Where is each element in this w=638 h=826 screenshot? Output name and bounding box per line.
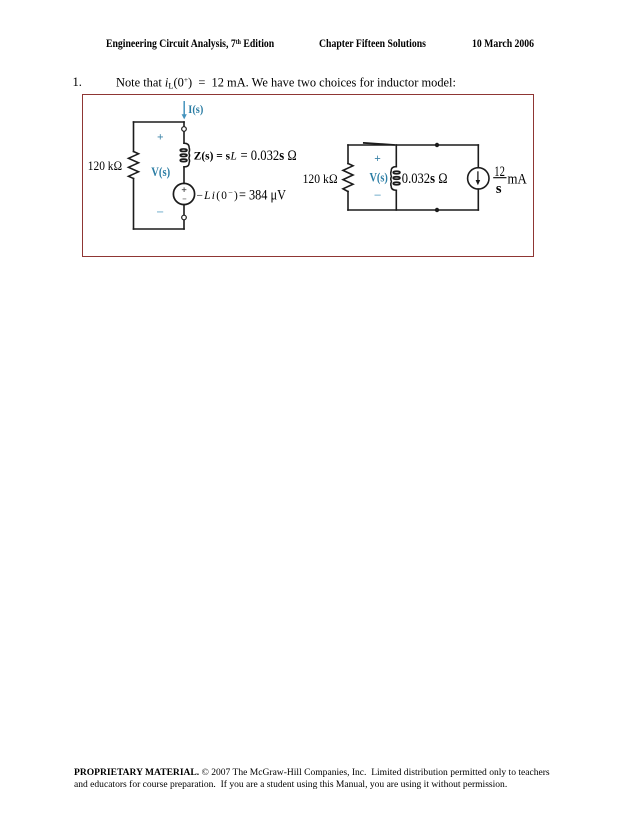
inductor L2 hooks and spine (right circuit) — [391, 167, 397, 191]
right circuit middle branch upper wire — [395, 145, 397, 167]
junction dot bottom — [435, 208, 439, 212]
wire: lower terminal to bottom wire — [183, 220, 185, 229]
svg-text:s: s — [496, 181, 502, 197]
right circuit outer rectangle top — [348, 144, 478, 146]
plus sign inside voltage source — [182, 187, 187, 199]
current source I1 circle — [468, 168, 489, 189]
right circuit left vertical lower — [347, 192, 349, 211]
svg-text:+: + — [157, 131, 164, 143]
resistor R left circuit 120k zigzag — [129, 152, 139, 179]
inductor L2 turns (ellipses) — [393, 171, 400, 185]
svg-text:−Li(0−): −Li(0−) — [197, 188, 240, 202]
right circuit left vertical upper — [347, 145, 349, 164]
inductor L1 hooks and spine (left circuit) — [184, 143, 190, 167]
label minus left circuit — [157, 211, 163, 213]
header: chapter — [319, 37, 426, 50]
resistor R right circuit 120k zigzag — [343, 164, 353, 192]
svg-text:120 kΩ: 120 kΩ — [303, 171, 338, 186]
svg-text:Z(s) = s: Z(s) = s — [194, 150, 231, 162]
wire: left circuit left vertical lower — [133, 179, 135, 230]
wire: source to lower terminal — [183, 205, 185, 216]
wire: inductor to source — [183, 167, 185, 183]
wire: left circuit top — [134, 121, 185, 123]
inductor L1 turns (ellipses) — [180, 149, 187, 162]
header: date — [472, 37, 534, 50]
labels — [88, 102, 527, 212]
label minus right circuit — [375, 194, 381, 196]
footer — [74, 767, 550, 778]
problem number — [73, 75, 82, 90]
svg-text:L: L — [230, 150, 237, 162]
right circuit right vertical upper — [477, 145, 479, 168]
wire: terminal to inductor — [183, 131, 185, 143]
svg-text:mA: mA — [508, 172, 528, 188]
wire doubling artifact on top wire — [364, 143, 394, 145]
red figure box — [82, 94, 534, 257]
wire: stub from top wire to terminal — [183, 122, 185, 127]
header: book title — [106, 37, 274, 50]
right circuit right vertical lower — [477, 189, 479, 210]
right circuit middle branch lower wire — [395, 190, 397, 210]
svg-text:V(s): V(s) — [370, 171, 388, 185]
right circuit outer rectangle bottom — [348, 209, 478, 211]
svg-text:V(s): V(s) — [151, 165, 170, 179]
minus sign inside voltage source — [183, 198, 187, 200]
terminal node lower (open circle) — [182, 215, 187, 220]
wire: left circuit bottom — [134, 228, 185, 230]
terminal node upper (open circle) — [182, 127, 187, 132]
svg-text:= 384 μV: = 384 μV — [239, 188, 286, 204]
svg-text:+: + — [374, 153, 381, 165]
svg-text:= 0.032s Ω: = 0.032s Ω — [241, 148, 298, 164]
junction dot top — [435, 143, 439, 147]
svg-text:0.032s Ω: 0.032s Ω — [402, 171, 448, 187]
current source arrow inside — [476, 171, 481, 185]
svg-text:I(s): I(s) — [188, 102, 203, 116]
wire: left circuit left vertical upper — [133, 122, 135, 152]
svg-text:120 kΩ: 120 kΩ — [88, 158, 123, 173]
problem statement — [116, 75, 456, 91]
voltage source V1 circle — [173, 183, 194, 204]
current arrow I(s) blue — [182, 101, 187, 119]
